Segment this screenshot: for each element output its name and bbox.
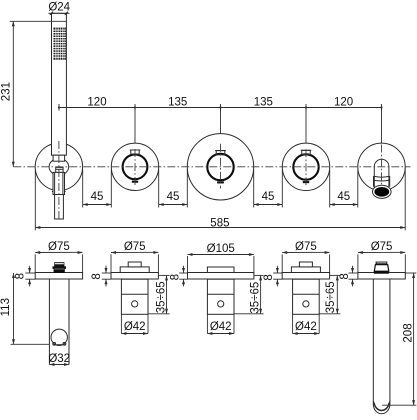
center knob K2 handle inner circle bbox=[207, 154, 233, 180]
svg-text:8: 8 bbox=[339, 273, 351, 279]
svg-text:120: 120 bbox=[334, 96, 353, 108]
side view E1 handshower tube bbox=[49, 279, 69, 364]
svg-text:35÷65: 35÷65 bbox=[155, 281, 167, 313]
side view E1 ball joint bbox=[51, 329, 67, 345]
svg-text:Ø42: Ø42 bbox=[210, 321, 232, 333]
side view E5 dimension 208 bbox=[382, 273, 416, 405]
side view E5 aerator cap (dark) bbox=[374, 262, 389, 274]
side view E1 dimension Ø32 bbox=[48, 353, 70, 366]
handshower hose lower section bbox=[55, 195, 64, 220]
spout outlet outer ellipse bbox=[373, 185, 392, 198]
svg-text:35÷65: 35÷65 bbox=[325, 281, 337, 313]
spout outlet black ellipse bbox=[374, 187, 389, 197]
svg-text:45: 45 bbox=[262, 191, 275, 203]
side view E1 holder cap (striped) bbox=[53, 262, 67, 273]
svg-text:45: 45 bbox=[167, 191, 180, 203]
side view E3 thermostat valve: dimension Ø105 bbox=[188, 243, 254, 273]
knob K1 top notch bbox=[130, 150, 141, 154]
label 120 (right) bbox=[334, 96, 353, 108]
svg-text:Ø32: Ø32 bbox=[48, 353, 70, 365]
side view E2 wall flange bbox=[111, 273, 158, 280]
svg-text:Ø42: Ø42 bbox=[295, 321, 317, 333]
svg-text:Ø24: Ø24 bbox=[48, 1, 70, 13]
knob K3 crosshair centerlines bbox=[305, 149, 307, 185]
handshower clamp bracket bbox=[52, 172, 66, 194]
svg-text:120: 120 bbox=[87, 96, 106, 108]
svg-text:Ø105: Ø105 bbox=[207, 243, 235, 255]
side view E3 wall flange bbox=[188, 273, 254, 280]
extension line above knob K3 bbox=[305, 106, 307, 143]
knob K3 top notch bbox=[301, 150, 312, 154]
knob K1 bottom tab bbox=[132, 181, 138, 183]
spout escutcheon circle bbox=[358, 143, 405, 190]
label 120 (left) bbox=[87, 96, 106, 108]
svg-text:35÷65: 35÷65 bbox=[250, 282, 262, 314]
side view E3 valve body bbox=[207, 279, 234, 314]
side view E5 dimension 8 flange bbox=[339, 266, 358, 287]
svg-text:45: 45 bbox=[91, 191, 104, 203]
svg-text:8: 8 bbox=[263, 274, 275, 280]
svg-text:113: 113 bbox=[0, 298, 12, 316]
svg-text:Ø75: Ø75 bbox=[124, 241, 146, 253]
side view E2 valve body bbox=[121, 279, 148, 314]
knob K1 crosshair centerlines bbox=[134, 149, 136, 185]
top dimension chain line 120/135/135/120 bbox=[58, 104, 383, 111]
svg-text:8: 8 bbox=[91, 273, 103, 279]
svg-text:8: 8 bbox=[15, 273, 27, 279]
svg-text:208: 208 bbox=[402, 323, 414, 342]
svg-text:45: 45 bbox=[337, 191, 350, 203]
knob K1 handle inner circle bbox=[123, 154, 148, 179]
svg-text:Ø75: Ø75 bbox=[295, 241, 317, 253]
side view E4 dimension 35÷65 bbox=[319, 275, 340, 313]
handshower spray face dotted grid bbox=[54, 28, 66, 60]
extension line above spout bbox=[381, 107, 383, 143]
svg-text:135: 135 bbox=[254, 96, 273, 108]
center knob K2 bottom tab bbox=[217, 181, 224, 183]
side view E3 dimension 35÷65 bbox=[234, 275, 264, 313]
handshower holder knuckle bbox=[49, 158, 69, 175]
side view E3 dimension Ø42 bbox=[207, 314, 234, 335]
side view E5 spout tube bbox=[373, 279, 390, 414]
knob K3 bottom tab bbox=[303, 181, 309, 183]
svg-text:8: 8 bbox=[170, 274, 182, 280]
extension line above center knob K2 bbox=[220, 106, 222, 134]
dimension 45 (1st gap) bbox=[83, 170, 112, 208]
svg-text:135: 135 bbox=[168, 96, 187, 108]
side view E2 dimension 35÷65 bbox=[148, 275, 170, 313]
spout tube front view bbox=[374, 159, 390, 187]
svg-text:585: 585 bbox=[210, 217, 229, 229]
label 135 (right) bbox=[254, 96, 273, 108]
handshower handle body bbox=[52, 13, 67, 161]
svg-text:231: 231 bbox=[1, 82, 13, 101]
side view E2 valve: dimension Ø75 bbox=[111, 241, 158, 273]
side view E1 wall flange bbox=[35, 273, 82, 280]
side view E4 cap steps bbox=[291, 262, 320, 273]
center knob K2 crosshair centerlines bbox=[220, 144, 222, 189]
handshower holder small square bbox=[56, 167, 63, 172]
dimension 231 vertical bbox=[1, 21, 67, 167]
extension line above knob K1 bbox=[134, 106, 136, 143]
dimension 45 (2nd gap) bbox=[159, 170, 188, 208]
spout crosshair centerlines bbox=[381, 145, 383, 186]
side view E5 spout: dimension Ø75 bbox=[358, 241, 405, 273]
side view E4 dimension 8 flange bbox=[263, 266, 282, 287]
handshower vertical centerline bbox=[58, 141, 60, 221]
knob K1 outer escutcheon bbox=[111, 143, 158, 190]
side view E4 valve body bbox=[293, 279, 320, 314]
side view E1 handshower holder: dimension Ø75 bbox=[35, 241, 82, 273]
dimension 45 (3rd gap) bbox=[254, 170, 283, 208]
knob K3 handle inner circle bbox=[293, 154, 318, 179]
svg-text:Ø42: Ø42 bbox=[124, 321, 146, 333]
knob K3 outer escutcheon bbox=[282, 143, 329, 190]
svg-text:Ø75: Ø75 bbox=[48, 241, 70, 253]
handshower escutcheon circle bbox=[35, 143, 82, 190]
side view E4 wall flange bbox=[282, 273, 329, 280]
svg-text:Ø75: Ø75 bbox=[371, 241, 393, 253]
side view E2 dimension 8 flange bbox=[91, 266, 111, 287]
dimension 585 overall width bbox=[35, 168, 405, 230]
side view E2 cap steps bbox=[120, 262, 149, 273]
label 135 (left) bbox=[168, 96, 187, 108]
side view E2 dimension Ø42 bbox=[121, 314, 148, 335]
center knob K2 outer escutcheon bbox=[187, 134, 253, 200]
side view E5 wall flange bbox=[358, 273, 405, 280]
dimension Ø24 handshower head bbox=[48, 1, 70, 15]
dimension 45 (4th gap) bbox=[330, 170, 358, 208]
side view E1 dimension 113 bbox=[0, 273, 49, 344]
center knob K2 top notch bbox=[215, 151, 226, 155]
side view E3 cap step bbox=[207, 267, 234, 273]
main horizontal centerline bbox=[13, 166, 410, 168]
side view E4 valve: dimension Ø75 bbox=[282, 241, 329, 273]
side view E3 dimension 8 flange bbox=[170, 266, 188, 287]
side view E4 dimension Ø42 bbox=[293, 314, 320, 335]
side view E1 dimension 8 flange bbox=[15, 266, 36, 287]
